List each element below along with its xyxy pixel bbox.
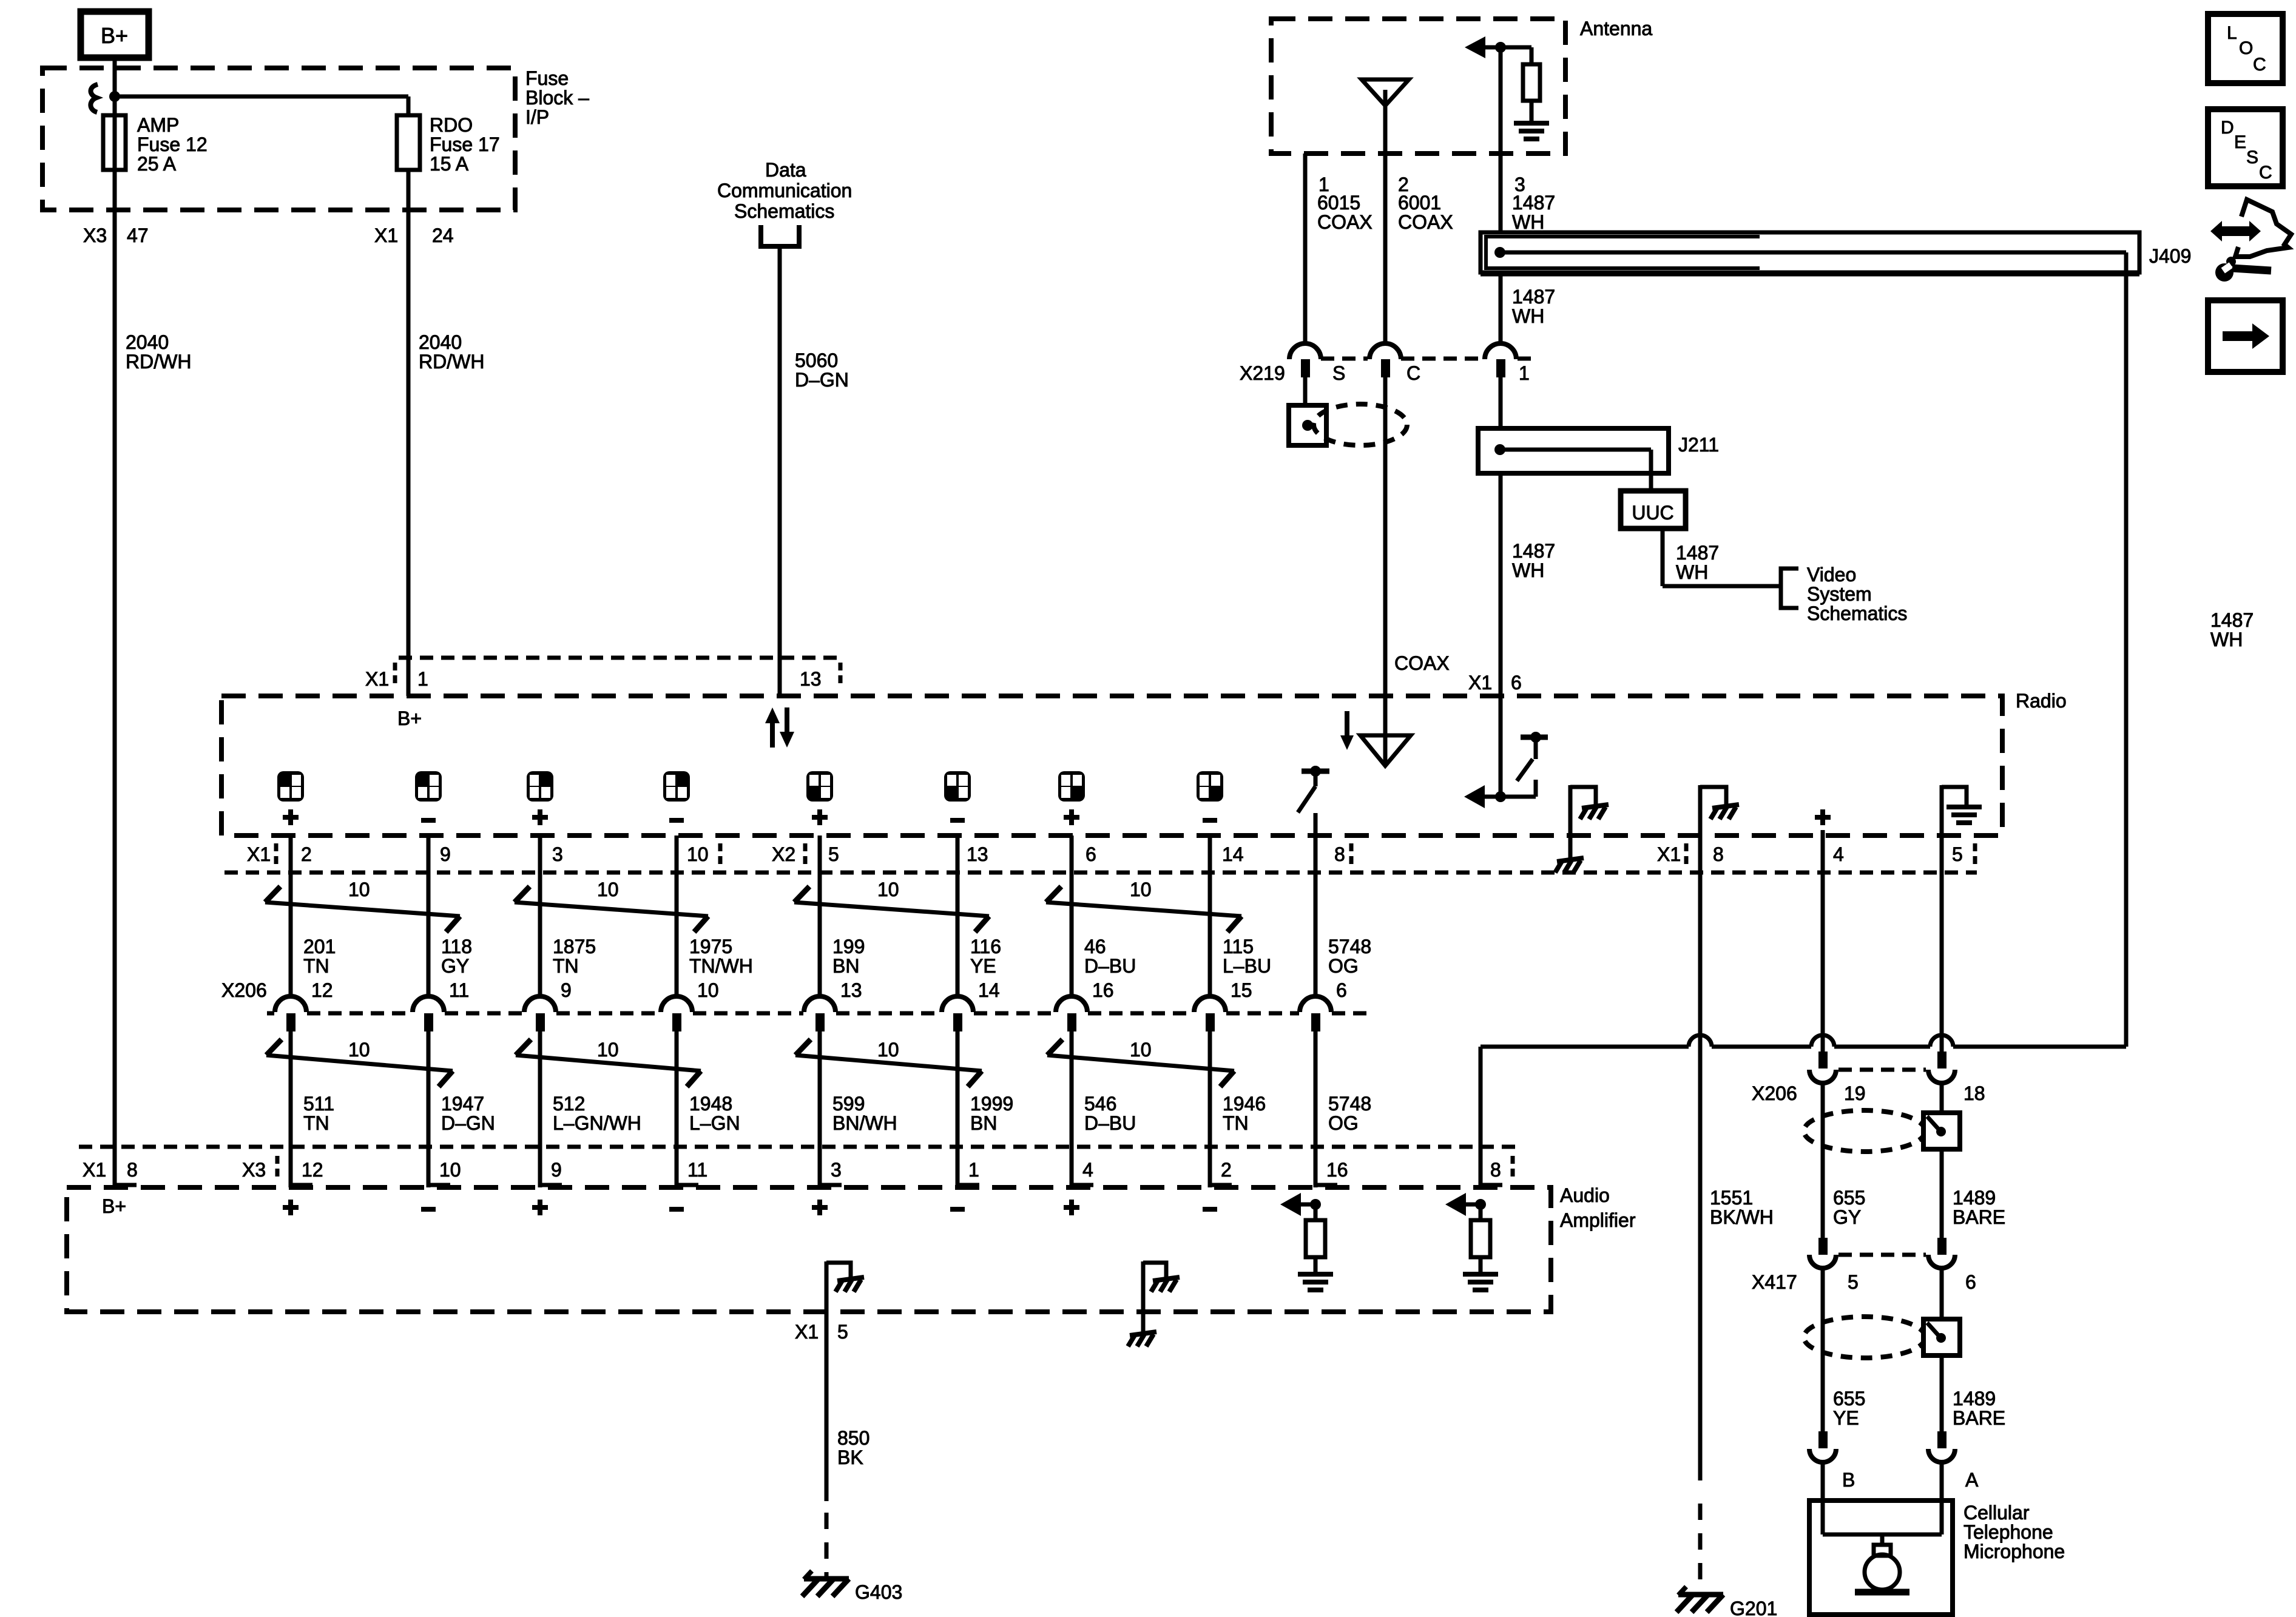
twisted pair mark row1 cols7-8: [1046, 886, 1241, 932]
svg-text:BN/WH: BN/WH: [832, 1112, 897, 1134]
wire 655 GY X206-19 to X417-5: [1821, 1081, 1825, 1254]
wire col1 X206 to amplifier: [291, 1031, 312, 1187]
twisted pair mark row2 cols3-4: [516, 1039, 701, 1087]
svg-text:1: 1: [417, 668, 428, 690]
svg-text:1489: 1489: [1953, 1388, 1996, 1409]
shield ellipse upper: [1804, 1110, 1925, 1152]
amplifier internal chassis ground (case): [1143, 1261, 1180, 1312]
svg-text:Schematics: Schematics: [734, 200, 834, 222]
radio speaker + polarity col3: [532, 809, 548, 825]
radio top strip tick left: [393, 663, 397, 683]
svg-text:D: D: [2221, 118, 2234, 138]
radio bottom strip tick at 1327: [803, 843, 808, 864]
svg-text:14: 14: [1222, 843, 1244, 865]
radio speaker + polarity col1: [283, 809, 299, 825]
svg-text:6001: 6001: [1398, 192, 1441, 214]
fuse block label: [525, 67, 589, 128]
wire label 2040 RD/WH (left): [126, 331, 191, 373]
svg-text:X1: X1: [365, 668, 389, 690]
svg-text:10: 10: [1130, 879, 1152, 900]
svg-text:6: 6: [1336, 979, 1347, 1001]
svg-text:YE: YE: [970, 955, 996, 977]
svg-text:16: 16: [1326, 1159, 1348, 1181]
ground G201 symbol: [1676, 1587, 1723, 1612]
radio bottom pin labels: [247, 843, 1963, 865]
wire label 1489 BARE (lower): [1953, 1388, 2005, 1429]
wire label 1947 D&#8211;GN (lower): [441, 1093, 495, 1134]
svg-text:512: 512: [553, 1093, 585, 1115]
wire 850 BK to G403: [825, 1312, 829, 1578]
radio internal switch at X1-6: [1517, 732, 1548, 797]
svg-text:10: 10: [877, 879, 899, 900]
amplifier - polarity col8: [1203, 1207, 1217, 1212]
svg-text:15: 15: [1231, 979, 1252, 1001]
wire 1487 WH J409 to X219-1: [1499, 272, 1503, 344]
svg-text:C: C: [2259, 163, 2272, 183]
svg-text:J211: J211: [1678, 434, 1719, 456]
svg-text:5: 5: [837, 1321, 848, 1343]
svg-text:OG: OG: [1328, 1112, 1359, 1134]
svg-text:BN: BN: [970, 1112, 997, 1134]
X206 pin 6 dome and stub: [1300, 996, 1331, 1031]
svg-text:TN: TN: [303, 955, 329, 977]
twisted pair label 10 row2 cols7-8: [1130, 1039, 1152, 1061]
radio speaker - polarity col4: [669, 818, 684, 823]
wire label 511 TN (lower): [303, 1093, 334, 1134]
svg-text:8: 8: [1490, 1159, 1501, 1181]
radio bottom strip tick at 3255: [1973, 843, 1977, 864]
wire 1489 BARE X417-6 to mic A: [1940, 1266, 1944, 1448]
svg-text:Block –: Block –: [525, 87, 589, 109]
svg-text:BN: BN: [832, 955, 859, 977]
svg-text:COAX: COAX: [1398, 211, 1453, 233]
inline connector X219 dashed line: [1321, 357, 1531, 361]
radio bottom connector strip: [225, 871, 1977, 875]
X206 19/18 labels: [1752, 1082, 1985, 1104]
svg-text:X1: X1: [374, 224, 398, 246]
svg-text:10: 10: [439, 1159, 461, 1181]
wire label 115 L&#8211;BU: [1223, 936, 1271, 977]
radio X1 top connector strip: [399, 656, 843, 660]
radio X1-6 pin labels: [1468, 672, 1522, 694]
twisted pair label 10 row1 cols5-6: [877, 879, 899, 900]
wire label 1551 BK/WH: [1710, 1187, 1774, 1228]
X206 pin number 6: [1336, 979, 1347, 1001]
amplifier internal bleed resistor pin8: [1445, 1193, 1490, 1274]
svg-text:OG: OG: [1328, 955, 1359, 977]
ground G403 symbol: [802, 1571, 849, 1596]
X206 pin number 9: [561, 979, 572, 1001]
junction dot B+ node: [109, 91, 120, 102]
fuse F12 label: [137, 114, 208, 175]
fuse block I/P dashed box: [42, 68, 515, 210]
coax shield termination box with dot: [1289, 405, 1326, 445]
radio speaker - polarity col8: [1203, 818, 1217, 823]
svg-text:S: S: [1332, 362, 1345, 384]
svg-text:9: 9: [551, 1159, 562, 1181]
twisted pair label 10 row1 cols3-4: [597, 879, 619, 900]
svg-text:Antenna: Antenna: [1580, 18, 1652, 39]
svg-text:8: 8: [1713, 843, 1724, 865]
radio internal coax terminator triangle: [1360, 696, 1411, 766]
wire antenna-1 coax shield stub: [1303, 154, 1308, 344]
svg-text:X1: X1: [1468, 672, 1492, 694]
svg-text:5: 5: [1848, 1271, 1859, 1293]
svg-text:1: 1: [1519, 362, 1530, 384]
amplifier internal signal ground pin8: [1463, 1274, 1498, 1290]
radio bottom strip tick at 455: [274, 843, 279, 864]
twisted pair label 10 row2 cols5-6: [877, 1039, 899, 1061]
radio bottom strip tick at 2227: [1349, 843, 1354, 864]
wire col7 radio to X206: [1070, 836, 1074, 998]
wire label 599 BN/WH (lower): [832, 1093, 897, 1134]
svg-text:13: 13: [840, 979, 862, 1001]
radio bottom strip tick at 2779: [1684, 843, 1689, 864]
mic pin labels B A: [1842, 1469, 1979, 1491]
svg-text:Audio: Audio: [1560, 1184, 1610, 1206]
wire 1487 WH horizontal to amplifier pin 8: [1481, 1035, 2126, 1187]
X417 pin 5 stub and cup: [1809, 1238, 1836, 1268]
speaker icon col6: [944, 771, 971, 802]
antenna internal ground bars: [1514, 123, 1549, 139]
svg-text:13: 13: [967, 843, 988, 865]
wire label 1487 WH (below J409): [1512, 286, 1555, 327]
wire label 1487 WH (below J211): [1512, 540, 1555, 581]
bracket under data communication reference: [761, 225, 799, 246]
svg-text:S: S: [2246, 147, 2258, 167]
svg-text:BK: BK: [837, 1447, 863, 1468]
twisted pair label 10 row2 cols3-4: [597, 1039, 619, 1061]
twisted pair mark row1 cols3-4: [515, 886, 708, 932]
svg-text:D–BU: D–BU: [1084, 1112, 1136, 1134]
svg-text:X3: X3: [242, 1159, 266, 1181]
wire col5 radio to X206: [818, 836, 822, 998]
X206 pin 15 dome and stub: [1194, 996, 1226, 1031]
svg-text:11: 11: [687, 1159, 707, 1181]
svg-text:Communication: Communication: [717, 180, 852, 201]
radio top pins X1 1 13: [365, 668, 822, 690]
wire 6001 COAX X219-C to radio: [1383, 377, 1388, 696]
svg-text:5748: 5748: [1328, 1093, 1371, 1115]
svg-text:Fuse 17: Fuse 17: [430, 133, 500, 155]
antenna label: [1580, 18, 1652, 39]
svg-text:TN: TN: [303, 1112, 329, 1134]
svg-text:47: 47: [127, 224, 149, 246]
radio internal B+ label: [397, 707, 422, 729]
svg-text:RDO: RDO: [430, 114, 473, 136]
svg-text:16: 16: [1092, 979, 1114, 1001]
X206 pin number 14: [978, 979, 1000, 1001]
wire label 46 D&#8211;BU: [1084, 936, 1136, 977]
radio internal arrow junction X1-6: [1464, 785, 1536, 808]
wire label 5748 OG: [1328, 936, 1371, 977]
svg-text:J409: J409: [2149, 245, 2191, 267]
speaker icon col1: [277, 771, 304, 802]
svg-text:2: 2: [1221, 1159, 1232, 1181]
amplifier - polarity col2: [421, 1207, 436, 1212]
svg-text:X2: X2: [772, 843, 795, 865]
wire col8 X206 to amplifier: [1210, 1031, 1232, 1187]
wire label 2040 RD/WH (right): [419, 331, 484, 373]
svg-text:X219: X219: [1240, 362, 1285, 384]
svg-text:5748: 5748: [1328, 936, 1371, 957]
legend wrench: [2215, 257, 2271, 282]
twisted pair mark row1 cols1-2: [265, 886, 460, 932]
wire B+ elbow into amplifier: [115, 1183, 137, 1187]
twisted pair label 10 row1 cols7-8: [1130, 879, 1152, 900]
shield ellipse lower: [1804, 1317, 1925, 1358]
amplifier internal signal ground pin16: [1298, 1274, 1333, 1290]
svg-text:46: 46: [1084, 936, 1106, 957]
svg-text:4: 4: [1082, 1159, 1093, 1181]
radio internal coax entry arrow: [1340, 711, 1354, 750]
amplifier - polarity col4: [669, 1207, 684, 1212]
wire 655 GY radio pin4 down: [1821, 836, 1825, 1068]
X417 labels: [1752, 1271, 1976, 1293]
X206 pin 18 stub and cup: [1928, 1052, 1955, 1083]
svg-text:115: 115: [1223, 936, 1254, 957]
amplifier + polarity col1: [283, 1200, 299, 1215]
radio coax pin label: [1394, 652, 1450, 674]
svg-text:655: 655: [1833, 1388, 1865, 1409]
wire col2 radio to X206: [427, 836, 431, 998]
svg-text:15 A: 15 A: [430, 153, 469, 175]
X206 pin 9 dome and stub: [524, 996, 556, 1031]
svg-text:RD/WH: RD/WH: [419, 351, 484, 373]
mic pin A stub and cup: [1928, 1431, 1955, 1462]
svg-text:511: 511: [303, 1093, 334, 1115]
svg-text:Amplifier: Amplifier: [1560, 1209, 1636, 1231]
svg-text:X1: X1: [1657, 843, 1681, 865]
speaker icon col5: [806, 771, 833, 802]
wire label 5748 OG (lower): [1328, 1093, 1371, 1134]
svg-text:AMP: AMP: [137, 114, 179, 136]
wire B+ feed from B+ box through AMP fuse down (2040 RD/WH): [113, 58, 117, 1187]
svg-text:118: 118: [441, 936, 472, 957]
amplifier strip tick at 457: [275, 1156, 280, 1176]
X206 pin number 10: [697, 979, 719, 1001]
svg-text:X206: X206: [221, 979, 267, 1001]
svg-text:Video: Video: [1807, 564, 1856, 586]
amplifier - polarity col6: [950, 1207, 965, 1212]
J409 label: [2149, 245, 2191, 267]
svg-text:10: 10: [687, 843, 709, 865]
wire 1551 BK/WH radio X1-8 to G201: [1698, 836, 1703, 1593]
svg-text:UUC: UUC: [1632, 502, 1673, 524]
svg-text:1: 1: [968, 1159, 979, 1181]
wire label 1875 TN: [553, 936, 596, 977]
antenna pin labels 1 2 3: [1319, 174, 1525, 195]
svg-text:8: 8: [1334, 843, 1345, 865]
svg-text:199: 199: [832, 936, 865, 957]
svg-text:L–BU: L–BU: [1223, 955, 1271, 977]
X206 19/18 dashed line: [1838, 1068, 1926, 1072]
svg-text:I/P: I/P: [525, 106, 549, 128]
audio amplifier label: [1560, 1184, 1636, 1231]
wire col3 X206 to amplifier: [540, 1031, 562, 1187]
wire radio X1-6 internal: [1499, 696, 1503, 797]
wire 1489 BARE X206-18 to X417-6: [1940, 1081, 1944, 1254]
video system schematics label: [1807, 564, 1907, 624]
svg-text:D–GN: D–GN: [795, 369, 849, 391]
svg-text:B: B: [1842, 1469, 1855, 1491]
X206 inline connector dashed line: [267, 1011, 1371, 1016]
radio speaker - polarity col2: [421, 818, 436, 823]
wire mic A lead: [1940, 1460, 1944, 1503]
amplifier + polarity col5: [812, 1200, 828, 1215]
svg-text:WH: WH: [1512, 305, 1544, 327]
wire label 5060 D-GN: [795, 349, 849, 391]
antenna dashed box: [1271, 19, 1565, 154]
legend LOC box: [2208, 14, 2283, 83]
wire X219-S to shield termination: [1303, 377, 1308, 405]
radio label: [2016, 690, 2067, 712]
svg-text:201: 201: [303, 936, 336, 957]
radio internal chassis ground (case): [1570, 785, 1609, 836]
cellular telephone microphone label: [1963, 1502, 2065, 1562]
radio case ground external hatch: [1555, 836, 1584, 873]
svg-text:X1: X1: [795, 1321, 819, 1343]
svg-text:546: 546: [1084, 1093, 1116, 1115]
wire label 512 L&#8211;GN/WH (lower): [553, 1093, 641, 1134]
svg-text:O: O: [2239, 38, 2253, 58]
wire 655 YE X417-5 to mic B: [1821, 1266, 1825, 1448]
svg-text:Schematics: Schematics: [1807, 603, 1907, 624]
svg-text:X3: X3: [83, 224, 107, 246]
svg-text:A: A: [1965, 1469, 1979, 1491]
svg-text:1999: 1999: [970, 1093, 1013, 1115]
speaker icon col7: [1058, 771, 1085, 802]
svg-text:X1: X1: [83, 1159, 106, 1181]
legend double arrow: [2210, 221, 2261, 241]
svg-text:System: System: [1807, 583, 1872, 605]
ground G201 label: [1730, 1598, 1777, 1617]
svg-text:1487: 1487: [1512, 192, 1555, 214]
svg-text:X417: X417: [1752, 1271, 1797, 1293]
svg-text:18: 18: [1963, 1082, 1985, 1104]
wire 1487 WH J409 to right side drop: [2124, 269, 2129, 1047]
svg-text:TN: TN: [553, 955, 579, 977]
radio internal + (pin 4): [1815, 809, 1831, 836]
svg-text:12: 12: [302, 1159, 323, 1181]
radio speaker + polarity col7: [1064, 809, 1079, 825]
junction block J211 bar: [1478, 428, 1669, 473]
wire col4 radio to X206: [675, 836, 679, 998]
svg-text:TN: TN: [1223, 1112, 1249, 1134]
off-page bracket video system: [1781, 569, 1798, 608]
amplifier strip tick at 2493: [1511, 1156, 1515, 1176]
wire 1489 BARE radio pin5 down: [1940, 836, 1944, 1068]
wire antenna-3 1487 WH to J409: [1499, 47, 1503, 233]
radio speaker - polarity col6: [950, 818, 965, 823]
svg-text:19: 19: [1844, 1082, 1866, 1104]
ground G403 label: [855, 1581, 902, 1603]
wire label 118 GY: [441, 936, 472, 977]
svg-text:COAX: COAX: [1317, 211, 1373, 233]
svg-text:116: 116: [970, 936, 1001, 957]
fuse F17 RDO 15A: [397, 115, 420, 170]
wire 1487 WH X219-1 to J211: [1499, 377, 1503, 428]
svg-text:10: 10: [597, 879, 619, 900]
speaker icon col8: [1197, 771, 1223, 802]
svg-text:Cellular: Cellular: [1963, 1502, 2030, 1524]
svg-text:9: 9: [440, 843, 451, 865]
junction block J409 bar: [1481, 232, 2139, 274]
J409 internal bus with junction dot: [1494, 247, 2126, 272]
wire UUC to video system schematics: [1663, 528, 1781, 586]
svg-text:5: 5: [1952, 843, 1963, 865]
X206 pin number 15: [1231, 979, 1252, 1001]
svg-text:GY: GY: [1833, 1206, 1861, 1228]
amplifier pin labels: [83, 1159, 1501, 1181]
wire label 199 BN: [832, 936, 865, 977]
speaker icon col3: [527, 771, 553, 802]
wire antenna-2 coax center (6001 COAX): [1383, 106, 1388, 344]
fuse F17 label: [430, 114, 500, 175]
fuse F12 AMP 25A: [103, 115, 126, 170]
svg-text:B+: B+: [101, 23, 128, 48]
splice component UUC box: [1621, 491, 1686, 528]
twisted pair label 10 row1 cols1-2: [348, 879, 370, 900]
X206 pin number 11: [449, 979, 469, 1001]
svg-text:GY: GY: [441, 955, 469, 977]
svg-text:Telephone: Telephone: [1963, 1521, 2053, 1543]
svg-text:X206: X206: [1752, 1082, 1797, 1104]
shield termination box upper: [1923, 1113, 1960, 1149]
cellular telephone microphone box: [1809, 1501, 1953, 1615]
wire label 1999 BN (lower): [970, 1093, 1013, 1134]
svg-text:10: 10: [877, 1039, 899, 1061]
wire col8 radio to X206: [1208, 836, 1212, 998]
legend right-arrow box: [2208, 300, 2283, 372]
antenna internal resistor: [1523, 47, 1540, 123]
svg-text:6: 6: [1086, 843, 1096, 865]
svg-text:10: 10: [697, 979, 719, 1001]
svg-text:D–GN: D–GN: [441, 1112, 495, 1134]
radio internal chassis ground (X1-8): [1700, 785, 1739, 836]
svg-text:1947: 1947: [441, 1093, 484, 1115]
svg-text:Fuse 12: Fuse 12: [137, 133, 208, 155]
X206 pin 14 dome and stub: [942, 996, 973, 1031]
X206 pin 13 dome and stub: [804, 996, 836, 1031]
svg-text:14: 14: [978, 979, 1000, 1001]
svg-text:WH: WH: [1676, 561, 1708, 583]
wire label 116 YE: [970, 936, 1001, 977]
svg-text:G403: G403: [855, 1581, 902, 1603]
wire col4 X206 to amplifier: [677, 1031, 698, 1187]
svg-text:C: C: [1406, 362, 1420, 384]
svg-text:L: L: [2227, 23, 2237, 43]
wire col3 radio to X206: [538, 836, 542, 998]
svg-text:25 A: 25 A: [137, 153, 177, 175]
svg-text:B+: B+: [397, 707, 422, 729]
svg-text:1946: 1946: [1223, 1093, 1266, 1115]
svg-text:1487: 1487: [1512, 540, 1555, 562]
X206 pin 12 dome and stub: [275, 996, 306, 1031]
X206 pin number 13: [840, 979, 862, 1001]
svg-text:Fuse: Fuse: [525, 67, 569, 89]
svg-text:2040: 2040: [419, 331, 462, 353]
X219 label and pins S C 1: [1240, 362, 1530, 384]
X206 pin number 16: [1092, 979, 1114, 1001]
svg-text:10: 10: [1130, 1039, 1152, 1061]
wire label 1487 WH (right drop): [2210, 609, 2254, 650]
svg-text:4: 4: [1833, 843, 1844, 865]
wire label 6001 COAX: [1398, 192, 1453, 233]
svg-text:3: 3: [552, 843, 563, 865]
svg-text:3: 3: [831, 1159, 842, 1181]
X206 pin 16 dome and stub: [1056, 996, 1087, 1031]
